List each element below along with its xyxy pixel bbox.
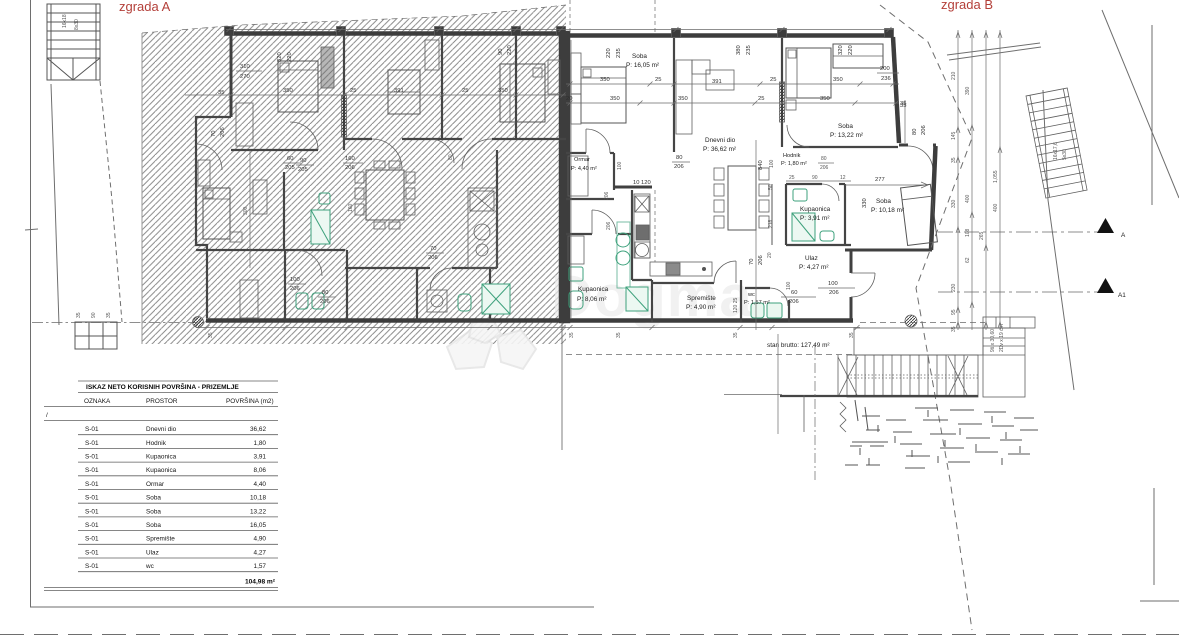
svg-text:P: 36,62 m²: P: 36,62 m² (703, 146, 736, 153)
furniture B: bathroom 8.06 toilet green (569, 291, 583, 309)
building A: left exterior wall lower (196, 144, 207, 318)
svg-text:220: 220 (507, 45, 513, 55)
svg-text:1,57: 1,57 (254, 563, 267, 570)
terrace: X brace right (948, 356, 968, 397)
vertical dashed reference line above wall (569, 0, 571, 33)
svg-text:10 120: 10 120 (633, 180, 651, 186)
svg-text:/: / (46, 412, 48, 419)
svg-text:80: 80 (322, 290, 328, 296)
building B: bathroom widening wall y=280 (632, 279, 652, 281)
building B: Spremiste right wall x=741 (740, 280, 742, 322)
svg-text:12: 12 (840, 175, 846, 181)
svg-text:Soba: Soba (838, 123, 853, 130)
building A: party wall between buildings (561, 33, 568, 321)
building B: right wall lower slanted (931, 146, 936, 250)
building B: wall y=245 Ulaz north (786, 244, 851, 246)
building A: door arc bedroom1 (290, 122, 318, 150)
site: arrow ticks on dim cluster (956, 32, 960, 38)
svg-text:270: 270 (240, 74, 250, 80)
svg-text:206: 206 (758, 255, 764, 265)
svg-text:13,22: 13,22 (250, 508, 266, 515)
svg-text:S-01: S-01 (85, 467, 99, 474)
hatch region boundary lines (142, 5, 566, 33)
building B: Ormar shelves (568, 156, 588, 196)
svg-text:206: 206 (820, 165, 829, 171)
building A: lower partition walls (284, 250, 286, 320)
svg-text:Ulaz: Ulaz (805, 255, 818, 262)
building A: interior wall x=344 (343, 35, 345, 150)
furniture B: table 391 box (706, 70, 734, 90)
svg-text:100: 100 (786, 281, 792, 290)
svg-text:206: 206 (829, 290, 839, 296)
svg-text:235: 235 (746, 45, 752, 55)
svg-text:Ormar: Ormar (146, 481, 165, 488)
svg-text:206: 206 (220, 127, 226, 137)
furniture A: bathtub lower-left (240, 280, 258, 318)
svg-text:1,055: 1,055 (993, 170, 999, 183)
svg-text:S-01: S-01 (85, 440, 99, 447)
svg-text:70: 70 (430, 246, 436, 252)
svg-text:20: 20 (767, 252, 773, 258)
svg-text:Hodnik: Hodnik (146, 440, 167, 447)
terrace: dashed line y=354 below building (566, 354, 852, 356)
building B: wc east wall x=789 (788, 300, 790, 322)
furniture A: kitchen sink (474, 224, 490, 240)
svg-text:90: 90 (498, 49, 504, 55)
building A: top exterior wall (228, 31, 566, 36)
furniture A: wardrobe room2 (388, 70, 420, 114)
building B: bathroom top wall y=234 (566, 233, 592, 235)
table: line under slash row (44, 420, 278, 422)
svg-text:wc: wc (145, 563, 155, 570)
furniture B: bathroom 3.91 toilet green (820, 231, 834, 241)
furniture B: closet strip left of bed (571, 53, 581, 94)
svg-text:236: 236 (881, 76, 891, 82)
drain circle left (193, 317, 204, 328)
dims B: horizontal chain y=103 (566, 102, 899, 104)
svg-text:Dnevni dio: Dnevni dio (146, 426, 177, 433)
svg-text:220: 220 (848, 45, 854, 55)
svg-text:350: 350 (498, 88, 508, 94)
svg-text:108: 108 (965, 228, 971, 237)
building B: bathroom/kitchen wall x=632 (631, 190, 633, 280)
furniture B: kitchen counter bottom (650, 262, 712, 276)
svg-text:4,27: 4,27 (254, 549, 267, 556)
svg-text:350: 350 (820, 96, 830, 102)
furniture B: sofa Dnevni dio (676, 60, 692, 134)
site: tick on left boundary (25, 229, 38, 230)
svg-text:145: 145 (951, 131, 957, 140)
svg-text:zgrada A: zgrada A (119, 0, 171, 14)
furniture A: dresser right of bed1 (321, 47, 334, 88)
furniture A: nightstand bedroom west (230, 232, 242, 242)
svg-text:350: 350 (610, 96, 620, 102)
svg-text:95: 95 (951, 309, 957, 315)
svg-text:16x18: 16x18 (62, 14, 68, 28)
svg-text:wc: wc (747, 292, 755, 298)
site: left plot boundary line (30, 0, 32, 607)
site: bottom dashed boundary strip (0, 634, 1179, 636)
furniture B: nightstand Soba 13.22 (786, 100, 796, 110)
building A: interior wall x=516 (515, 35, 517, 139)
furniture B: bed Soba 16.05 (581, 67, 626, 123)
svg-text:100: 100 (290, 277, 300, 283)
dims A: bottom tick dimension line (196, 327, 566, 329)
drain circle right (905, 315, 917, 327)
svg-text:120 25: 120 25 (733, 297, 739, 313)
svg-text:20: 20 (566, 96, 572, 102)
dims B: top tick dimension line (566, 29, 893, 31)
svg-text:350: 350 (833, 77, 843, 83)
svg-text:100: 100 (769, 159, 775, 168)
building A: closet wall lower-left (236, 103, 253, 146)
svg-text:80: 80 (912, 129, 918, 135)
svg-text:400: 400 (965, 194, 971, 203)
svg-text:391: 391 (394, 88, 404, 94)
building A: door arc lower1 (296, 250, 322, 276)
furniture B: wardrobe Soba 13.22 (833, 44, 883, 68)
svg-text:220: 220 (287, 52, 293, 62)
site: slanted path edge below stairs (51, 84, 59, 325)
svg-text:Soba: Soba (146, 508, 161, 515)
furniture B: bathroom 8.06 green counter strip (617, 222, 630, 288)
building A: lower horizontal wall y=250 west (196, 249, 345, 251)
svg-text:S-01: S-01 (85, 563, 99, 570)
svg-text:205: 205 (285, 165, 295, 171)
svg-text:350: 350 (678, 96, 688, 102)
building A: left wall bump-out (196, 117, 231, 144)
svg-text:P: 3,91 m²: P: 3,91 m² (800, 215, 829, 222)
building B: door arc Spremiste (714, 261, 736, 283)
svg-text:277: 277 (875, 177, 885, 183)
svg-text:310: 310 (240, 64, 250, 70)
furniture A: door arc room2 to hall (430, 139, 454, 163)
svg-text:210: 210 (951, 71, 957, 80)
building B: dark door jamb on wall x=782 (780, 82, 785, 122)
svg-text:S-01: S-01 (85, 508, 99, 515)
svg-text:80: 80 (821, 156, 827, 162)
building B: door arc Kupaonica 3.91 (822, 184, 839, 201)
building B: interior wall x=674 bedroom1 (673, 38, 675, 152)
svg-text:35: 35 (733, 332, 739, 338)
building A: bottom exterior wall (206, 318, 566, 323)
svg-text:70: 70 (749, 259, 755, 265)
building B: door arc bathroom 8.06 (591, 210, 593, 234)
svg-text:4,90: 4,90 (254, 536, 267, 543)
table: line under header (44, 406, 278, 408)
building B: Ormar closet walls (613, 153, 615, 190)
building A: door arc mid2 (462, 139, 492, 169)
furniture A: closet room2 (425, 40, 439, 70)
terrace: dash-dot vertical x=815 (814, 345, 816, 480)
furniture B: bathroom 8.06 green sinks (616, 233, 630, 247)
svg-text:zgrada B: zgrada B (941, 0, 993, 12)
building A: lower horizontal wall y=268 (345, 267, 430, 269)
svg-text:25: 25 (655, 77, 661, 83)
building B: Spremiste top wall y=280 (652, 282, 714, 284)
furniture A: toilet green (458, 294, 471, 311)
furniture A: hall cabinet (253, 180, 267, 214)
svg-text:Ulaz: Ulaz (146, 549, 159, 556)
svg-text:206: 206 (604, 191, 610, 200)
svg-text:206: 206 (674, 164, 684, 170)
building A: wall pilaster columns on top wall (225, 27, 234, 36)
svg-text:36,62: 36,62 (250, 426, 266, 433)
terrace: dashed line y=322 right of building (860, 322, 985, 324)
svg-text:25: 25 (789, 175, 795, 181)
svg-text:265: 265 (979, 231, 985, 240)
table: title line top (78, 380, 278, 382)
table: line under title (78, 392, 278, 394)
furniture A: bed bedroom west (203, 188, 230, 239)
site: vertical dimension lines cluster right (957, 30, 959, 330)
svg-text:80: 80 (448, 154, 454, 160)
svg-text:Spremište: Spremište (146, 536, 175, 543)
svg-text:218: 218 (768, 219, 774, 228)
svg-text:206: 206 (789, 299, 799, 305)
svg-text:Kupaonica: Kupaonica (800, 206, 831, 213)
building A: bathroom wall x=284 (283, 172, 285, 250)
svg-text:90: 90 (812, 175, 818, 181)
svg-text:80: 80 (676, 155, 682, 161)
furniture B: wc sink green (767, 303, 782, 318)
svg-text:Soba: Soba (876, 198, 891, 205)
svg-text:Kupaonica: Kupaonica (146, 467, 177, 474)
svg-text:25: 25 (350, 88, 356, 94)
svg-text:10,18: 10,18 (250, 495, 266, 502)
building B: entry east wall lower (850, 297, 853, 322)
section line A1 with triangle marker (938, 291, 1098, 293)
building B: wall y=153 below bedroom1 (566, 152, 586, 154)
svg-text:90: 90 (300, 158, 306, 164)
svg-text:8,06: 8,06 (254, 467, 267, 474)
site: dash-dot line at y=322 left (32, 322, 196, 324)
furniture A: sink green mid (319, 193, 330, 204)
stairs: exterior staircase top-left (47, 4, 100, 80)
svg-text:35: 35 (218, 90, 224, 96)
building B: bottom wall of Soba 10.18 (845, 249, 932, 252)
svg-text:330: 330 (951, 199, 957, 208)
building A: dark door jamb on wall x=344 (342, 95, 347, 137)
building B: wall y=147 bottom of Soba 13.22 (793, 146, 898, 148)
svg-text:220: 220 (606, 48, 612, 58)
furniture B: bathroom 3.91 shower green (792, 213, 815, 241)
svg-text:25: 25 (758, 96, 764, 102)
dims B: bottom tick dimension line (566, 327, 860, 329)
svg-text:Soba: Soba (632, 53, 647, 60)
furniture B: dining table (728, 166, 756, 230)
building A: door arc mid1 (372, 139, 402, 169)
terrace: landing rectangle (854, 328, 983, 355)
terrace: upper box structure (983, 317, 1035, 328)
watermark: Dogma logo petals (447, 318, 536, 369)
building B: wall x=786 Kupaonica west (785, 184, 787, 245)
svg-text:60: 60 (287, 156, 293, 162)
building B: entry east wall upper (850, 250, 853, 273)
svg-text:35: 35 (616, 332, 622, 338)
building A: kitchen wall x=497 (496, 150, 498, 268)
svg-text:P: 1,80 m²: P: 1,80 m² (781, 161, 807, 167)
furniture A: shower cabin green mid (311, 210, 330, 244)
svg-text:S-01: S-01 (85, 454, 99, 461)
svg-text:104,98 m²: 104,98 m² (245, 579, 276, 586)
svg-text:206: 206 (606, 221, 612, 230)
building B: east wall jog y=145 (899, 144, 908, 147)
furniture B: kitchen appliance strip (634, 194, 650, 258)
building A: left exterior wall upper (230, 31, 233, 117)
svg-text:S-01: S-01 (85, 481, 99, 488)
furniture A: bathroom pair green lower-left (296, 293, 308, 309)
building B: door arc bedroom1 B (586, 129, 610, 153)
site: small line bottom right corner (1140, 600, 1179, 602)
furniture B: bathroom 8.06 washing machine green (626, 287, 648, 311)
site: right road edge vertical upper (1151, 25, 1153, 205)
svg-text:1,80: 1,80 (254, 440, 267, 447)
building B: door arc wc (770, 288, 788, 306)
site: solid plot boundary line top right (1102, 10, 1179, 198)
dims A: top tick dimension line (226, 29, 566, 31)
building B: entry door leaf and arc (851, 272, 875, 274)
svg-text:2Dv x 19 cm: 2Dv x 19 cm (999, 324, 1005, 352)
terrace: extension line left (724, 394, 782, 396)
svg-text:350: 350 (283, 88, 293, 94)
svg-text:16,05: 16,05 (250, 522, 266, 529)
furniture B: bathroom 3.91 sink green (793, 189, 807, 201)
svg-text:S-01: S-01 (85, 549, 99, 556)
building B: top exterior wall (566, 33, 893, 38)
svg-text:160: 160 (348, 203, 354, 212)
building B: wall y=184 Kupaonica north (786, 183, 822, 185)
svg-text:400: 400 (993, 203, 999, 212)
svg-text:320: 320 (838, 45, 844, 55)
furniture A: bed bedroom1 (278, 61, 318, 112)
building B: bottom exterior wall (566, 318, 853, 323)
terrace: vertical line x=804 (803, 395, 805, 432)
furniture A: closet room3 (548, 60, 560, 94)
svg-text:Ormar: Ormar (574, 157, 590, 163)
dims B: vertical dim lines through plan (570, 40, 572, 318)
terrace: ramp right structure (983, 328, 1025, 397)
svg-text:5x30: 5x30 (1062, 149, 1068, 160)
svg-text:205: 205 (298, 167, 308, 173)
svg-text:206: 206 (428, 255, 438, 261)
furniture B: bathroom 8.06 sink green (569, 267, 583, 281)
terrace: vertical dim x=778 (777, 334, 779, 434)
furniture B: bathtub outline (568, 236, 584, 264)
site: right road edge vertical lower (1153, 488, 1155, 585)
building B: door arc Soba 13.22 (787, 125, 809, 147)
building B: right wall upper slanted (893, 37, 899, 143)
svg-text:62: 62 (965, 257, 971, 263)
svg-text:35: 35 (76, 312, 82, 318)
terrace: zigzag hatch left cell (840, 402, 846, 432)
building B: wall x=845 Kupaonica east (844, 184, 846, 245)
furniture A: wardrobe against left wall (198, 160, 210, 186)
furniture B: wc toilet green (751, 303, 764, 318)
svg-text:4,40: 4,40 (254, 481, 267, 488)
furniture A: kitchen counter (468, 188, 497, 268)
svg-text:100: 100 (828, 281, 838, 287)
building A: entrance door arc left (196, 144, 222, 170)
svg-text:S-01: S-01 (85, 536, 99, 543)
site: bottom boundary line (30, 606, 594, 608)
building B: wall x=782 living/bedroom2 (781, 38, 783, 147)
svg-text:206: 206 (320, 299, 330, 305)
site: dashed slanted path edge (100, 81, 122, 322)
furniture B: bed Soba 13.22 (786, 48, 831, 98)
furniture A: washing machine (427, 290, 447, 312)
svg-text:P: 4,27 m²: P: 4,27 m² (799, 264, 828, 271)
furniture A: kitchen stove (470, 191, 494, 211)
svg-text:Hodnik: Hodnik (783, 153, 801, 159)
terrace: X brace left (838, 357, 858, 397)
svg-text:70: 70 (211, 131, 217, 137)
building B: wall x=772 corridor west (771, 184, 773, 245)
table: bottom double line (44, 587, 278, 589)
site: small utility structure left (75, 322, 117, 349)
svg-text:PROSTOR: PROSTOR (146, 398, 178, 405)
building B: door arc to Soba 10.18 (908, 146, 933, 171)
svg-text:100: 100 (617, 161, 623, 170)
building A: horizontal mid wall y=150 left part (231, 149, 318, 151)
site: dashed parcel boundary polyline (880, 5, 972, 630)
building A: door arc lower2 (430, 268, 452, 290)
svg-text:16x17,6: 16x17,6 (1053, 142, 1059, 160)
svg-text:206: 206 (921, 125, 927, 135)
svg-text:200: 200 (880, 66, 890, 72)
furniture A: dining table (366, 170, 404, 220)
hatch region: building A (zgrada A) cross-hatched (142, 5, 566, 344)
svg-text:35: 35 (951, 326, 957, 332)
svg-text:Kupaonica: Kupaonica (578, 286, 609, 293)
site: retaining wall double line to stairs (947, 43, 1040, 55)
furniture A: shower cabin green (482, 284, 510, 314)
svg-text:ISKAZ NETO KORISNIH POVRŠINA -: ISKAZ NETO KORISNIH POVRŠINA - PRIZEMLJE (86, 382, 239, 391)
svg-text:35: 35 (900, 101, 906, 107)
svg-text:35: 35 (106, 312, 112, 318)
svg-text:P: 4,90 m²: P: 4,90 m² (686, 304, 715, 311)
svg-text:S-01: S-01 (85, 426, 99, 433)
svg-text:35: 35 (208, 332, 214, 338)
svg-text:206: 206 (290, 286, 300, 292)
building A: horizontal mid wall y=139 center (344, 138, 372, 140)
svg-text:P: 1,57 m²: P: 1,57 m² (744, 300, 770, 306)
stairs: exterior staircase right (rotated) (1026, 88, 1087, 198)
svg-text:OZNAKA: OZNAKA (84, 398, 111, 405)
terrace: exterior stairs wide (847, 355, 978, 397)
svg-text:320: 320 (277, 52, 283, 62)
svg-text:Dnevni dio: Dnevni dio (705, 137, 736, 144)
svg-text:25: 25 (462, 88, 468, 94)
dims B: chain y=181 Hodnik (786, 180, 851, 182)
building B: Spremiste west wall x=652 (651, 280, 653, 322)
svg-text:Spremište: Spremište (687, 295, 716, 302)
building B: wall pilasters top (672, 29, 681, 38)
terrace: vertical line from building corner x=562 (561, 322, 563, 450)
svg-text:P: 13,22 m²: P: 13,22 m² (830, 132, 863, 139)
furniture A: bed room3 (500, 64, 545, 122)
svg-text:840: 840 (758, 160, 764, 170)
svg-text:P: 16,05 m²: P: 16,05 m² (626, 62, 659, 69)
svg-text:206: 206 (345, 165, 355, 171)
svg-text:S-01: S-01 (85, 495, 99, 502)
rubble wall texture bottom right (845, 400, 1038, 468)
svg-text:S-01: S-01 (85, 522, 99, 529)
svg-text:3,91: 3,91 (254, 454, 267, 461)
dims A: horizontal dimension chain y=95 (185, 94, 566, 96)
svg-text:25: 25 (770, 77, 776, 83)
svg-text:90: 90 (91, 312, 97, 318)
